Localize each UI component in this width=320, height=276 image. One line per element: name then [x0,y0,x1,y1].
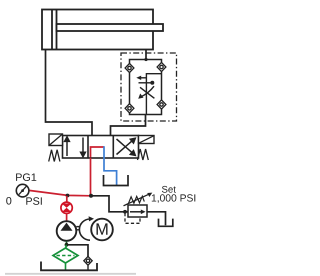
wire drain line to check valve [67,245,89,259]
check valve CV5 (tank return) [84,256,92,265]
flow control bridge rectangle [130,60,162,115]
spring left [49,150,60,162]
check valve CV2 (top-right) [157,62,166,71]
ball valve BV1 (red) [66,196,68,203]
relief valve adjustment arrow [124,194,150,206]
spring right [138,149,149,160]
node bridge inlet tee [144,58,147,61]
relief valve RV1 [128,205,147,217]
check valve CV1 (top-left) [125,63,134,72]
wire relief to tank [147,212,166,226]
check valve CV4 (bottom-right) [157,100,166,109]
tank T1 (under valve) [104,175,129,186]
wire pressure line P (red, valve to junction) [90,158,92,196]
wire relief supply line [91,196,128,212]
wire bridge exit to valve port B [111,115,146,136]
node relief input junction [123,210,127,214]
wire gauge line (red) [29,190,91,195]
pressure gauge PG1 [16,184,29,197]
cylinder C1 body [42,10,153,50]
relief valve pilot line (dashed) [125,213,140,223]
wire tank return (blue) [104,158,117,185]
pump P1 [57,221,77,241]
directional valve V1 body [63,136,139,159]
filter F1 (green) [65,245,67,248]
check valve CV3 (bottom-left) [125,104,134,113]
wire cap-end line [46,50,93,136]
V1 center position colored path P to T [91,147,105,158]
electric motor M1 [91,219,113,241]
label PG1 [16,173,36,181]
node junction at gauge line / ball valve [66,194,70,198]
cylinder C1 rod [57,24,164,31]
coupling / shaft with rotation arrow [76,226,80,228]
flow control FC1 (adjustable restrictor, center) [139,74,162,115]
solenoid S1 (left) [49,134,63,146]
node pump suction junction [65,243,69,247]
label Set [162,186,176,193]
faint page artifact [5,273,136,275]
label PSI [26,197,42,205]
flow control module enclosure (dash-dot) [121,53,177,121]
reservoir (open tank) [41,262,97,271]
wire rod-end line [145,50,147,60]
V1 left position arrows [65,137,86,157]
label 0 [6,197,11,205]
relief valve spring [128,196,144,204]
node junction P [89,194,93,198]
wire pump suction stub [66,241,68,245]
label 1,000 PSI [152,194,196,203]
tank T2 (relief drain) [159,219,173,227]
solenoid S2 (right) [139,136,155,144]
cylinder C1 piston [51,10,53,50]
V1 right position crossed arrows [117,138,136,155]
